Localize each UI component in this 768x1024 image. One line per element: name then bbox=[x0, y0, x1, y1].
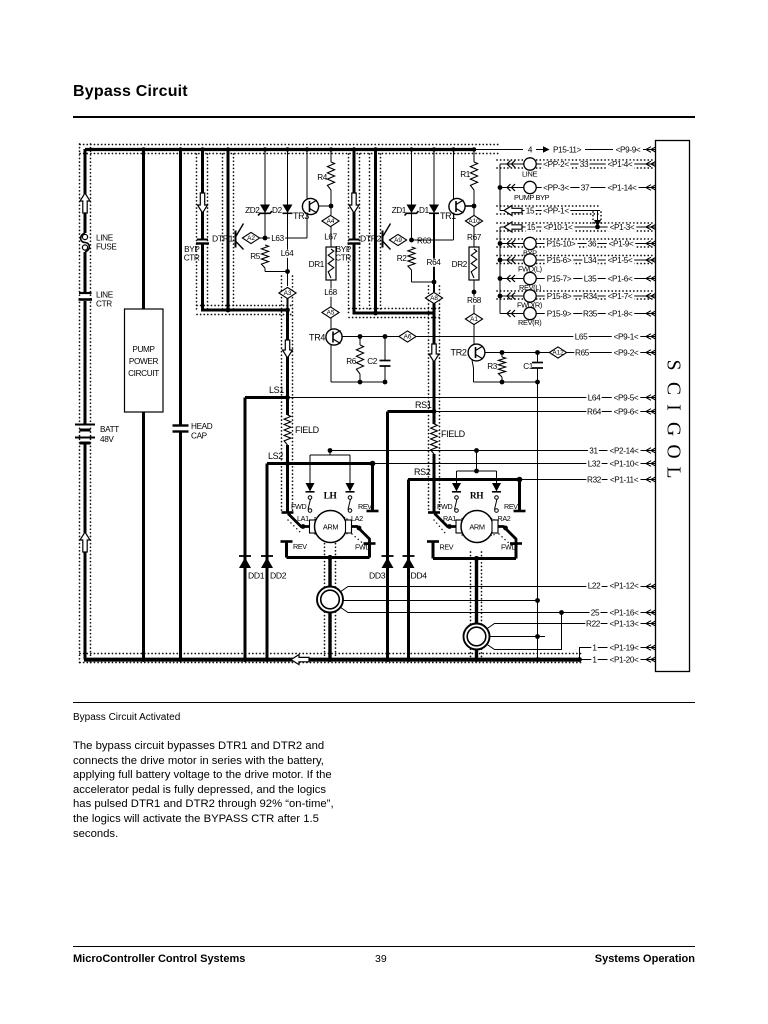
pin P1-3 bbox=[608, 224, 637, 232]
label L22 bbox=[586, 582, 601, 590]
driver coil FWD(R) bbox=[524, 290, 536, 302]
svg-text:FWD: FWD bbox=[291, 502, 306, 511]
svg-text:TR2: TR2 bbox=[451, 348, 467, 358]
wire pump column bbox=[142, 149, 145, 309]
svg-text:D1: D1 bbox=[419, 206, 430, 215]
wire A8 to sub-bus bbox=[433, 304, 436, 314]
svg-text:LINE: LINE bbox=[522, 170, 537, 179]
svg-text:31: 31 bbox=[589, 447, 598, 456]
svg-text:POWER: POWER bbox=[129, 357, 159, 366]
junction bbox=[285, 269, 290, 274]
svg-text:LINE: LINE bbox=[96, 291, 114, 300]
diode D2 bbox=[283, 205, 293, 214]
junction R63 bbox=[409, 238, 414, 243]
wire TR2 collector row bbox=[485, 352, 550, 354]
svg-text:P15-10>: P15-10> bbox=[547, 240, 576, 249]
pin P1-11 bbox=[608, 476, 641, 484]
wire top bus thin extension bbox=[476, 149, 523, 151]
svg-text:<P1-6<: <P1-6< bbox=[608, 275, 633, 284]
label R64 row bbox=[586, 408, 601, 416]
pin P1-12 bbox=[608, 582, 641, 590]
stipple highlight of activated bypass path bbox=[80, 144, 91, 663]
wire RH motor bottom U bbox=[433, 557, 516, 560]
wire LH brush loop bbox=[310, 454, 350, 456]
svg-text:<P1-3<: <P1-3< bbox=[610, 223, 635, 232]
pin P1-8 bbox=[606, 310, 635, 318]
brush RH left bbox=[456, 520, 462, 533]
wire battery left line bbox=[84, 149, 87, 233]
svg-text:DTR1: DTR1 bbox=[212, 234, 234, 244]
pin P1-20 bbox=[608, 656, 641, 664]
svg-text:REV: REV bbox=[293, 542, 307, 551]
svg-text:<P1-16<: <P1-16< bbox=[610, 609, 640, 618]
svg-text:P15-8>: P15-8> bbox=[547, 292, 572, 301]
junction bbox=[474, 448, 479, 453]
svg-text:36: 36 bbox=[588, 240, 597, 249]
svg-text:A1: A1 bbox=[470, 316, 478, 323]
resistor R3 bbox=[501, 353, 503, 358]
svg-text:P15-6>: P15-6> bbox=[547, 256, 572, 265]
pin PP-1 bbox=[542, 207, 571, 215]
contact bar RH FWD bottom bbox=[510, 542, 522, 545]
junction bbox=[500, 380, 505, 385]
wire row L64 to P9-5 bbox=[288, 397, 657, 399]
body paragraph bbox=[73, 739, 334, 841]
svg-text:<PP-3<: <PP-3< bbox=[543, 184, 569, 193]
svg-text:BATT: BATT bbox=[100, 425, 119, 434]
wire TR1 collector to R1 bbox=[465, 205, 475, 207]
svg-text:REV: REV bbox=[358, 502, 372, 511]
diode RH REV sense bbox=[492, 483, 501, 492]
wire RH field to contact bbox=[433, 454, 436, 512]
pin P1-5 bbox=[606, 257, 635, 265]
label 1 (P1-20) bbox=[591, 656, 597, 664]
pin P1-19 bbox=[608, 644, 641, 652]
junction bbox=[327, 555, 332, 560]
junction RS2 REV tap bbox=[517, 477, 523, 483]
svg-text:R64: R64 bbox=[427, 258, 442, 267]
wire sub-bus DTR2 group bbox=[353, 312, 435, 315]
svg-text:R2: R2 bbox=[397, 254, 408, 263]
label L32 bbox=[586, 460, 601, 468]
svg-text:REV: REV bbox=[440, 543, 454, 552]
wire L63 bbox=[260, 237, 308, 239]
junction bbox=[474, 469, 479, 474]
svg-text:<P1-8<: <P1-8< bbox=[608, 310, 633, 319]
junction bbox=[226, 308, 231, 313]
resistor R5 bbox=[261, 245, 268, 268]
wire ZD2 column bbox=[264, 149, 266, 238]
chevrons bbox=[507, 310, 515, 317]
svg-text:A5: A5 bbox=[327, 310, 335, 317]
wire R1 bottom bbox=[473, 190, 475, 216]
wire row L65 bbox=[416, 336, 657, 338]
wire C1 ground column bbox=[537, 382, 539, 660]
diode DD2 bbox=[261, 555, 273, 557]
resistor R6 bbox=[359, 337, 361, 346]
node A6 bbox=[399, 331, 416, 342]
junction L63 bbox=[263, 236, 268, 241]
node A1 bbox=[465, 313, 482, 324]
wire row P15-6 bbox=[500, 259, 524, 261]
wire ZD1 column bbox=[411, 149, 413, 240]
diode LH REV sense bbox=[346, 483, 355, 492]
svg-text:G: G bbox=[663, 422, 684, 436]
transistor TR2 bbox=[468, 344, 485, 361]
svg-text:HEAD: HEAD bbox=[191, 422, 213, 431]
junction bbox=[285, 395, 290, 400]
svg-text:<P1-5<: <P1-5< bbox=[608, 256, 633, 265]
svg-text:LA1: LA1 bbox=[297, 514, 309, 523]
diode RH FWD sense bbox=[452, 483, 461, 492]
wire LH field to contact bbox=[286, 445, 289, 512]
wire TR3 column upper bbox=[306, 149, 308, 199]
wire A5 to TR4 bbox=[330, 318, 332, 330]
svg-text:R1: R1 bbox=[460, 170, 471, 179]
transistor DTR1 bbox=[235, 231, 237, 248]
junction bbox=[498, 276, 503, 281]
svg-text:DD3: DD3 bbox=[369, 571, 386, 581]
junction bbox=[472, 204, 477, 209]
label L67 bbox=[323, 233, 338, 241]
svg-text:CAP: CAP bbox=[191, 432, 208, 441]
svg-text:<P9-5<: <P9-5< bbox=[614, 394, 639, 403]
svg-text:REV(R): REV(R) bbox=[518, 318, 541, 327]
transistor DTR2 bbox=[382, 231, 384, 248]
driver coil BYP bbox=[524, 237, 536, 249]
wire DR1 to A5 bbox=[330, 280, 332, 307]
contact LA1 circles bbox=[308, 496, 312, 500]
svg-text:A12: A12 bbox=[552, 350, 564, 357]
wire row R64 to P9-6 bbox=[434, 411, 656, 413]
open arrow down on BYP CTR 2 bbox=[349, 193, 359, 213]
svg-text:<P1-9<: <P1-9< bbox=[609, 240, 634, 249]
wire R5 bottom to L64 bbox=[264, 268, 266, 272]
logics box bbox=[656, 141, 690, 672]
svg-text:R5: R5 bbox=[250, 252, 261, 261]
wire LH motor bottom U bbox=[287, 556, 370, 559]
wire row P15-10 stub bbox=[499, 227, 501, 314]
label 1 (P1-19) bbox=[591, 644, 597, 652]
svg-text:ZD2: ZD2 bbox=[245, 206, 260, 215]
caption bbox=[73, 712, 180, 723]
svg-text:PUMP: PUMP bbox=[132, 345, 155, 354]
node R35 bbox=[582, 310, 597, 318]
wire A8 branch down to RS1 bbox=[433, 313, 436, 412]
node L35 bbox=[582, 275, 597, 283]
svg-text:R34: R34 bbox=[583, 292, 598, 301]
wire row 1 P1-19 bbox=[580, 648, 657, 660]
diode ZD2 bbox=[260, 205, 270, 214]
wire TR4 bottom row bbox=[331, 381, 385, 383]
wire DD3 column bbox=[386, 412, 389, 660]
contact bar RH REV bottom bbox=[427, 540, 439, 543]
label L63 bbox=[270, 235, 285, 243]
svg-text:I: I bbox=[663, 404, 684, 411]
junction bbox=[358, 380, 363, 385]
svg-text:<P1-7<: <P1-7< bbox=[608, 292, 633, 301]
wire RH REV terminal bbox=[518, 480, 521, 512]
wire sensor RH middle bbox=[489, 636, 545, 638]
junction blade LH right bbox=[357, 526, 362, 531]
svg-text:A6: A6 bbox=[404, 334, 412, 341]
junction blade LH bbox=[301, 524, 306, 529]
svg-text:L22: L22 bbox=[588, 582, 601, 591]
wire row PP-2 bbox=[500, 163, 524, 165]
svg-text:RA2: RA2 bbox=[498, 514, 511, 523]
svg-text:<P1-14<: <P1-14< bbox=[608, 184, 638, 193]
field winding LH bbox=[284, 415, 291, 445]
svg-text:O: O bbox=[663, 444, 684, 458]
armature RH ARM bbox=[461, 511, 493, 543]
pin P10-1 bbox=[542, 224, 575, 232]
svg-text:<P1-12<: <P1-12< bbox=[610, 582, 640, 591]
contact bar RH left bbox=[428, 511, 440, 514]
svg-text:37: 37 bbox=[581, 184, 590, 193]
bus junctions bbox=[141, 657, 146, 662]
svg-text:CIRCUIT: CIRCUIT bbox=[128, 369, 159, 378]
svg-text:A10: A10 bbox=[468, 218, 480, 225]
svg-text:LINE: LINE bbox=[96, 234, 114, 243]
wire LH field column bbox=[286, 311, 289, 415]
svg-text:R64: R64 bbox=[587, 408, 602, 417]
wire R1 column bbox=[473, 149, 475, 162]
wire TR2 emitter bbox=[472, 360, 474, 382]
wire TR2 bottom row bbox=[474, 381, 538, 383]
resistor R1 bbox=[470, 162, 477, 190]
svg-text:LA2: LA2 bbox=[351, 514, 363, 523]
svg-text:<P9-6<: <P9-6< bbox=[614, 408, 639, 417]
wire LS1 bus bbox=[245, 396, 288, 399]
wire TR3 emitter down bbox=[306, 214, 308, 238]
wire DTR2 collector line bbox=[374, 149, 377, 313]
node 33 bbox=[579, 161, 590, 169]
diode ZD1 bbox=[407, 205, 417, 214]
wire sub-bus DTR1 group bbox=[201, 309, 289, 312]
label 25 bbox=[590, 609, 601, 617]
open arrow left row P10-1 bbox=[504, 222, 522, 232]
junction bbox=[498, 294, 503, 299]
wire head cap column bbox=[179, 149, 182, 425]
current sensor RH bbox=[464, 624, 490, 650]
footer bbox=[73, 953, 245, 965]
diode DD4 bbox=[403, 555, 415, 557]
transistor TR1 bbox=[449, 198, 465, 214]
svg-text:33: 33 bbox=[580, 160, 589, 169]
diode DD3 bbox=[382, 555, 394, 557]
node R34 bbox=[582, 293, 597, 301]
label R32 bbox=[586, 476, 601, 484]
contact RA2 circles bbox=[495, 496, 499, 500]
label L64 bbox=[279, 250, 294, 258]
wire bottom bus (battery negative rail) bbox=[84, 658, 580, 662]
svg-text:DD4: DD4 bbox=[411, 571, 428, 581]
wire D1 column R64 bbox=[433, 149, 435, 205]
field winding RH bbox=[433, 412, 436, 424]
wire TR3 collector to R4 bbox=[318, 205, 331, 207]
pin P9-9 bbox=[614, 146, 643, 154]
svg-text:DD1: DD1 bbox=[248, 571, 265, 581]
wire R4 column bbox=[330, 149, 332, 162]
wire bbox=[585, 149, 613, 151]
chevrons bbox=[507, 240, 515, 247]
junction bbox=[559, 610, 564, 615]
wire DTR1 collector line bbox=[227, 149, 230, 310]
pin P9-1 bbox=[612, 333, 641, 341]
footer rule bbox=[73, 946, 695, 947]
svg-text:<P2-14<: <P2-14< bbox=[610, 447, 640, 456]
svg-text:R65: R65 bbox=[575, 349, 590, 358]
driver coil LINE bbox=[524, 158, 536, 170]
contact BYP CTR 1 bbox=[197, 239, 208, 241]
chevrons bbox=[507, 293, 515, 300]
pin P9-2 bbox=[612, 349, 641, 357]
pin P1-6 bbox=[606, 275, 635, 283]
wire DD1 column bbox=[244, 398, 247, 660]
svg-text:25: 25 bbox=[591, 609, 600, 618]
junction bbox=[432, 477, 437, 482]
svg-text:D2: D2 bbox=[272, 206, 283, 215]
wire TR4 collector row bbox=[342, 336, 399, 338]
label R68 bbox=[466, 297, 481, 305]
wire RH armature ground column bbox=[475, 559, 478, 660]
svg-text:PUMP BYP: PUMP BYP bbox=[514, 193, 550, 202]
svg-text:CTR: CTR bbox=[184, 254, 200, 263]
junction bbox=[432, 409, 437, 414]
junction bbox=[500, 350, 505, 355]
junction blade RH right bbox=[503, 526, 508, 531]
pin P1-9 bbox=[607, 240, 636, 248]
label R65 bbox=[574, 349, 589, 357]
svg-text:LS1: LS1 bbox=[269, 385, 284, 395]
wire A10 to DR2 bbox=[473, 227, 475, 248]
wire A3 to sub-bus bbox=[287, 299, 289, 312]
battery BATT 48V bbox=[75, 424, 95, 426]
armature LH ARM bbox=[315, 511, 347, 543]
junction bbox=[329, 204, 334, 209]
wire sensor LH middle bbox=[343, 600, 538, 602]
svg-text:R22: R22 bbox=[586, 620, 601, 629]
svg-text:<PP-1<: <PP-1< bbox=[543, 207, 569, 216]
svg-text:15: 15 bbox=[527, 223, 536, 232]
wire TR1 base column bbox=[453, 149, 455, 199]
arrow to P15-11 bbox=[543, 146, 550, 152]
capacitor C1 bbox=[537, 353, 539, 363]
wire row 1 P1-20 bbox=[580, 659, 657, 661]
contact bar LH REV bottom bbox=[281, 540, 293, 543]
svg-text:<P1-20<: <P1-20< bbox=[610, 656, 640, 665]
svg-text:R35: R35 bbox=[583, 310, 598, 319]
label L65 bbox=[573, 333, 588, 341]
wire sensor RH top to row R22 bbox=[487, 624, 657, 630]
chevrons bbox=[507, 184, 515, 191]
svg-text:R6: R6 bbox=[346, 357, 357, 366]
svg-text:L35: L35 bbox=[584, 275, 597, 284]
svg-text:L34: L34 bbox=[584, 256, 597, 265]
open arrow up lower left line bbox=[80, 532, 90, 552]
label R64 bbox=[426, 259, 441, 267]
svg-text:L32: L32 bbox=[588, 460, 601, 469]
driver coil REV(L) bbox=[524, 272, 536, 284]
blade LH left bbox=[288, 514, 310, 527]
svg-text:RH: RH bbox=[470, 492, 484, 502]
junction bbox=[498, 185, 503, 190]
svg-text:C2: C2 bbox=[367, 357, 378, 366]
junction bbox=[358, 334, 363, 339]
relay coil DR1 bbox=[326, 247, 336, 280]
wire row P10-1 bbox=[500, 226, 656, 228]
blade RH left bbox=[435, 514, 457, 527]
node 4 label bbox=[527, 146, 533, 154]
wire top bus (battery positive rail) bbox=[85, 148, 476, 151]
row arrowheads into logics bbox=[646, 147, 656, 153]
svg-text:<P10-1<: <P10-1< bbox=[544, 223, 574, 232]
node A4 bbox=[322, 215, 339, 226]
capacitor C2 bbox=[384, 337, 386, 361]
pin P9-6 bbox=[612, 408, 641, 416]
wire LS2 bus bbox=[267, 462, 373, 465]
wire row 31 to P2-14 bbox=[330, 450, 656, 452]
junction bbox=[535, 634, 540, 639]
brush LH left bbox=[310, 520, 316, 533]
blade RH right bbox=[498, 527, 516, 544]
capacitor HEAD CAP bbox=[173, 424, 189, 426]
diode DD1 bbox=[239, 555, 251, 557]
wire A1 to TR2 bbox=[473, 325, 475, 346]
wire R64 segment bbox=[433, 214, 435, 292]
svg-text:L64: L64 bbox=[281, 249, 294, 258]
open arrow left on bottom bus bbox=[291, 655, 309, 665]
fuse LINE FUSE bbox=[81, 233, 90, 252]
wire sensor RH bottom loop to row 25 bbox=[487, 613, 562, 650]
svg-text:DR2: DR2 bbox=[452, 260, 468, 269]
svg-text:R63: R63 bbox=[417, 237, 432, 246]
svg-text:<P1-11<: <P1-11< bbox=[610, 476, 639, 485]
pin PP-3 bbox=[542, 184, 571, 192]
svg-text:P15-9>: P15-9> bbox=[547, 310, 572, 319]
junction bbox=[285, 308, 290, 313]
junction LS2 REV tap bbox=[370, 461, 376, 467]
wire row PP-1 bbox=[500, 210, 600, 212]
diode LH FWD sense bbox=[306, 483, 315, 492]
wire DD2 column bbox=[266, 464, 269, 660]
open arrow left row PP-1 bbox=[504, 206, 522, 216]
wire row P15-8 bbox=[500, 295, 524, 297]
wire bbox=[643, 149, 656, 151]
svg-text:FWD: FWD bbox=[437, 502, 452, 511]
svg-text:<P9-2<: <P9-2< bbox=[614, 349, 639, 358]
svg-text:A8: A8 bbox=[430, 295, 438, 302]
current sensor LH bbox=[317, 587, 343, 613]
top bus junctions bbox=[141, 147, 145, 151]
svg-text:L63: L63 bbox=[271, 234, 284, 243]
svg-text:<P1-19<: <P1-19< bbox=[610, 644, 640, 653]
junction bbox=[285, 461, 290, 466]
svg-text:ARM: ARM bbox=[469, 523, 485, 532]
wire row P15-7 bbox=[500, 278, 524, 280]
svg-text:R4: R4 bbox=[317, 173, 328, 182]
node A5 bbox=[322, 307, 339, 318]
node A8 bbox=[425, 292, 442, 303]
junction bbox=[383, 334, 388, 339]
pin P1-4 bbox=[606, 161, 635, 169]
svg-text:CTR: CTR bbox=[96, 300, 112, 309]
svg-text:R68: R68 bbox=[467, 296, 482, 305]
junction bbox=[373, 311, 378, 316]
wire BYP CTR 2 branch bbox=[353, 149, 356, 239]
driver coil FWD(L) bbox=[524, 254, 536, 266]
pin P2-14 bbox=[608, 447, 641, 455]
